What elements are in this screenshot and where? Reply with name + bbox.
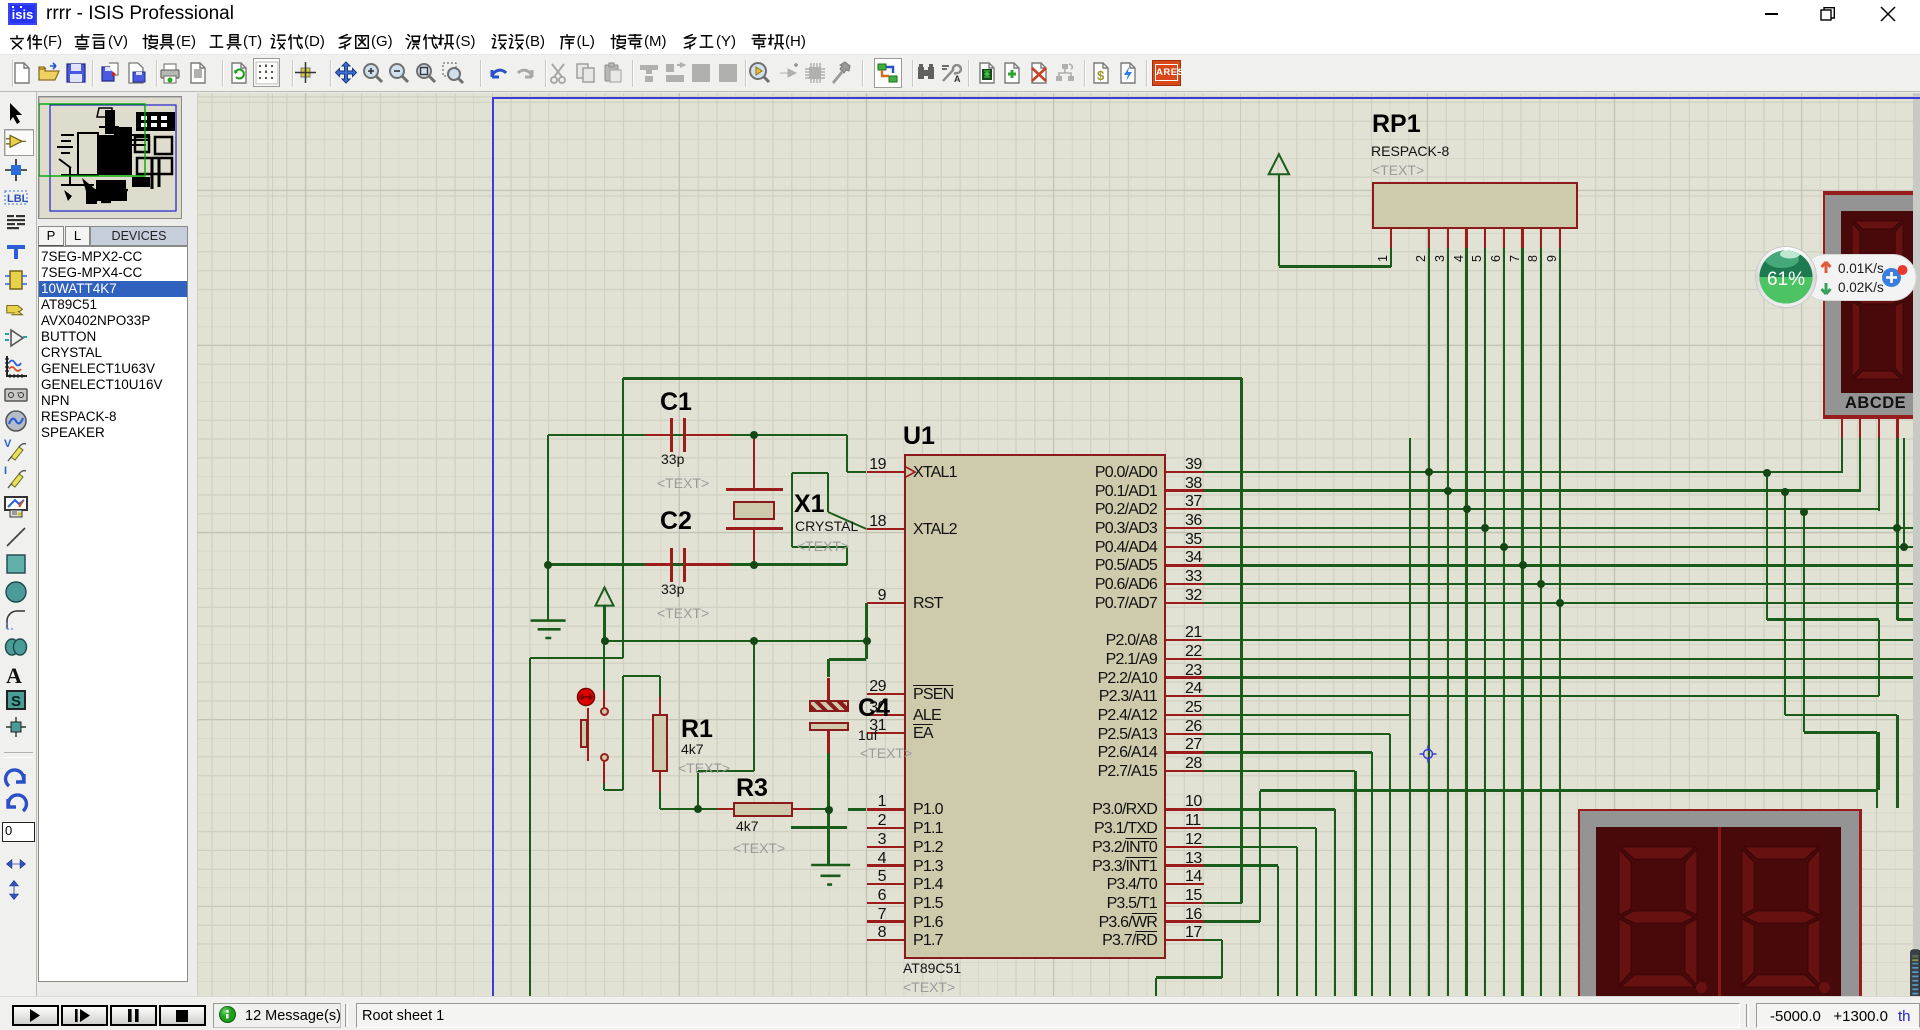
svg-text:I: I [4, 465, 7, 477]
svg-text:$: $ [1097, 68, 1105, 83]
svg-text:LBL: LBL [7, 193, 29, 205]
svg-text:S: S [11, 693, 21, 710]
svg-text:0.02K/s: 0.02K/s [1838, 280, 1884, 295]
svg-text:A: A [6, 663, 22, 688]
svg-text:0.01K/s: 0.01K/s [1838, 261, 1884, 276]
svg-text:isis: isis [12, 7, 34, 22]
svg-text:61%: 61% [1767, 269, 1805, 290]
svg-text:A: A [954, 74, 961, 84]
svg-text:V: V [4, 438, 12, 450]
